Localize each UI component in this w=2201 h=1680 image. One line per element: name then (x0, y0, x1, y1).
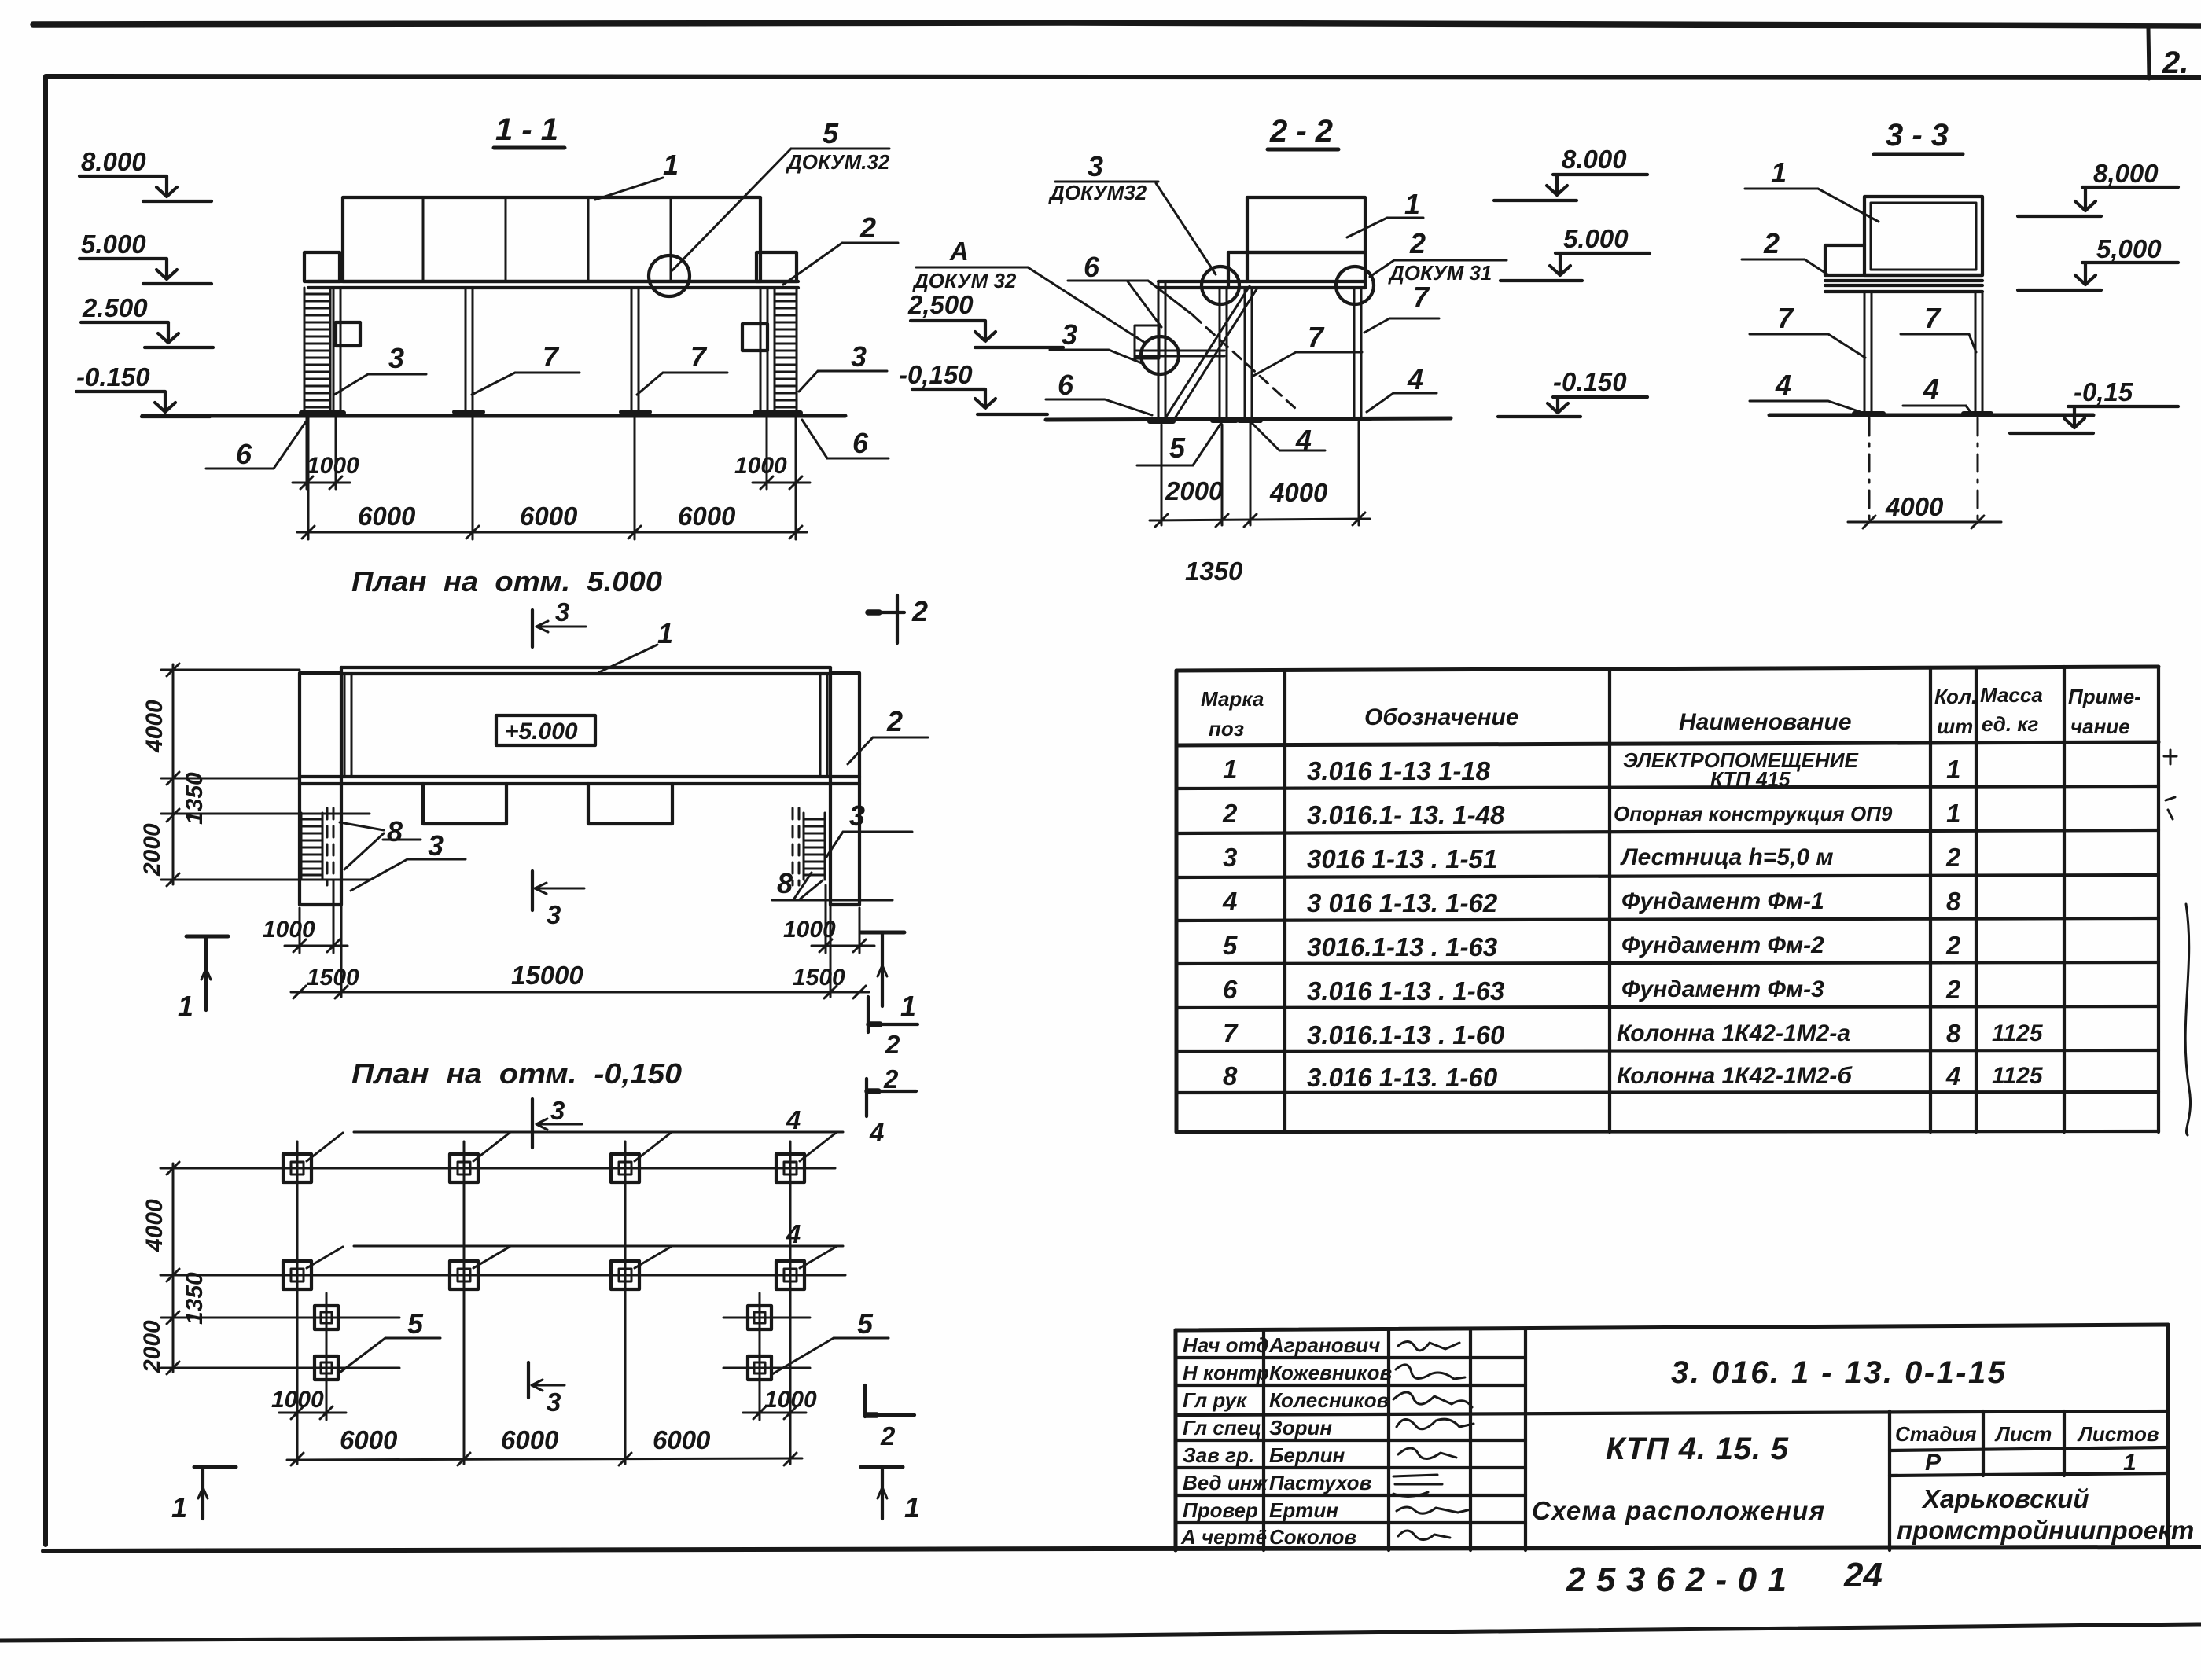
svg-text:2: 2 (886, 705, 903, 737)
section 3-3 title (1874, 118, 1963, 154)
table row 7: column 1K42-1M2-a (1223, 1019, 2044, 1050)
table row 4: foundation Fm-1 (1222, 887, 1961, 917)
right stair plan (793, 808, 825, 885)
svg-text:6: 6 (1058, 369, 1074, 401)
svg-text:-0.150: -0.150 (1553, 367, 1627, 396)
axis leader row 1 with label 4 (307, 1105, 843, 1161)
svg-text:4000: 4000 (142, 1199, 167, 1252)
svg-text:1350: 1350 (182, 1272, 208, 1325)
support frame left column (1158, 281, 1165, 421)
room outline plan (300, 667, 859, 784)
staff row 8: drafted (1180, 1525, 1450, 1549)
svg-text:5,000: 5,000 (2096, 234, 2162, 263)
svg-text:5: 5 (1223, 931, 1238, 960)
svg-text:Марка: Марка (1201, 687, 1264, 711)
label 7 left 3-3 (1750, 302, 1865, 358)
foundation plan title (351, 1057, 682, 1090)
dim 1000 right plan (783, 885, 874, 953)
svg-text:Соколов: Соколов (1269, 1525, 1356, 1549)
left bracket (336, 322, 360, 346)
svg-text:шт: шт (1937, 715, 1973, 738)
elevation mark 5.000 3-3 (2018, 234, 2178, 290)
foundation squares row 1 (283, 1154, 804, 1182)
svg-text:ДОКУМ 32: ДОКУМ 32 (912, 269, 1017, 292)
svg-text:6000: 6000 (653, 1425, 711, 1454)
svg-text:Кожевников: Кожевников (1269, 1361, 1392, 1384)
svg-text:ДОКУМ32: ДОКУМ32 (1048, 181, 1147, 204)
svg-text:Фундамент Фм-3: Фундамент Фм-3 (1621, 976, 1824, 1002)
svg-text:4000: 4000 (1269, 478, 1328, 507)
svg-text:Харьковский: Харьковский (1921, 1484, 2089, 1513)
beam notch left (423, 784, 506, 824)
label 6 frame upper (1068, 251, 1192, 327)
hidden stair flight dashed (1193, 315, 1296, 409)
leader 5 DOKUM.32 with detail circle (649, 117, 890, 296)
stair column pair (1220, 288, 1227, 421)
svg-text:2: 2 (885, 1030, 900, 1059)
svg-text:-0,15: -0,15 (2074, 377, 2133, 406)
svg-text:Колонна 1К42-1М2-а: Колонна 1К42-1М2-а (1617, 1020, 1850, 1046)
svg-text:8: 8 (1223, 1061, 1238, 1090)
table row 6: foundation Fm-3 (1223, 975, 1961, 1005)
dim line 2-2 (1150, 476, 1370, 586)
staff row 6: lead eng (1183, 1471, 1442, 1497)
svg-text:Наименование: Наименование (1679, 709, 1852, 735)
dim 1000 right foundation (743, 1387, 817, 1419)
svg-text:4: 4 (1407, 363, 1423, 395)
elevation mark 2.500 mid (907, 290, 1063, 347)
svg-text:Зав гр.: Зав гр. (1183, 1443, 1254, 1467)
svg-text:Зорин: Зорин (1269, 1416, 1332, 1439)
label 3 stair lower (1050, 318, 1142, 363)
electro room box 3-3 (1864, 197, 1982, 275)
svg-text:Обозначение: Обозначение (1364, 704, 1519, 730)
table row 2: support structure (1222, 799, 1960, 829)
svg-text:5: 5 (407, 1307, 424, 1340)
svg-text:Приме-: Приме- (2068, 685, 2141, 708)
svg-text:Вед инж: Вед инж (1183, 1471, 1268, 1494)
svg-text:3: 3 (1088, 150, 1103, 182)
svg-text:Масса: Масса (1980, 683, 2043, 707)
sheet top border line (33, 23, 2201, 26)
right wall strip plan (830, 667, 859, 905)
object name cell KTP 4.15.5 (1532, 1432, 1824, 1525)
label 3 DOKUM32 top (1048, 150, 1216, 274)
svg-text:3: 3 (849, 800, 865, 832)
leader 1 room plan (599, 617, 673, 672)
section mark 2 top right of plan (867, 595, 928, 643)
svg-text:ДОКУМ 31: ДОКУМ 31 (1388, 261, 1492, 285)
right bracket (742, 324, 767, 351)
dim 6000 chain 1-1 (297, 502, 807, 539)
axis leader row 2 with label 4 (307, 1219, 843, 1268)
elevation mark -0.150 left (76, 362, 210, 417)
left bracket 3-3 (1825, 245, 1864, 275)
svg-text:ед. кг: ед. кг (1982, 712, 2038, 736)
table header texts (1201, 683, 2141, 741)
svg-text:8,000: 8,000 (2093, 159, 2159, 188)
foundation squares row 2 (283, 1261, 804, 1289)
svg-text:2: 2 (1945, 843, 1961, 872)
svg-text:6: 6 (1223, 975, 1238, 1004)
svg-text:2,500: 2,500 (907, 290, 974, 319)
table row 1: electro room (1223, 748, 1960, 791)
ground line 1-1 (142, 414, 845, 418)
leader 1 (room) (595, 149, 679, 200)
svg-text:Колонна 1К42-1М2-б: Колонна 1К42-1М2-б (1617, 1063, 1853, 1089)
left ladder poz.3 (304, 288, 330, 415)
svg-text:3 - 3: 3 - 3 (1886, 118, 1949, 153)
label 1 3-3 (1745, 156, 1879, 222)
svg-text:поз: поз (1209, 717, 1244, 741)
svg-text:2000: 2000 (1165, 476, 1224, 505)
svg-text:Р: Р (1925, 1450, 1942, 1476)
svg-text:Лист: Лист (1994, 1422, 2052, 1446)
svg-text:2: 2 (911, 595, 928, 627)
section 1-1 title (494, 112, 565, 148)
right column 3-3 (1975, 292, 1982, 412)
svg-text:Ертин: Ертин (1269, 1498, 1338, 1522)
leader 5 left foundation (340, 1307, 440, 1373)
label 7 right 3-3 (1901, 302, 1976, 352)
svg-text:Н контр: Н контр (1183, 1361, 1269, 1384)
svg-text:3 016 1-13. 1-62: 3 016 1-13. 1-62 (1307, 888, 1498, 917)
svg-text:1: 1 (900, 990, 916, 1022)
svg-text:Фундамент Фм-1: Фундамент Фм-1 (1621, 888, 1824, 914)
left ladder column poz.8 (333, 288, 340, 412)
svg-text:3016.1-13 . 1-63: 3016.1-13 . 1-63 (1307, 932, 1497, 961)
svg-text:1: 1 (1946, 755, 1960, 784)
detail circle at landing (1141, 336, 1179, 374)
svg-text:+5.000: +5.000 (505, 719, 578, 744)
elevation mark -0.150 mid (899, 360, 1047, 414)
svg-text:5: 5 (1169, 432, 1186, 464)
middle column 7 (first) (455, 288, 483, 412)
staff row 7: checked (1183, 1498, 1470, 1522)
label 4 right 3-3 (1903, 373, 1972, 414)
platform beams 3-3 (1825, 275, 1982, 292)
svg-text:3: 3 (547, 1388, 561, 1417)
svg-text:8.000: 8.000 (1562, 145, 1627, 174)
svg-text:1000: 1000 (734, 453, 787, 479)
svg-text:1: 1 (663, 149, 679, 181)
svg-text:8: 8 (1946, 1019, 1961, 1048)
svg-text:1: 1 (178, 990, 193, 1022)
svg-text:А: А (949, 237, 969, 266)
stair landing platform (1135, 325, 1224, 358)
svg-text:2.: 2. (2162, 46, 2188, 80)
left wall strip plan (300, 667, 341, 905)
svg-text:7: 7 (1413, 281, 1430, 313)
leader 3 right stair (826, 800, 912, 857)
svg-text:2000: 2000 (139, 823, 165, 877)
base plates 3-3 (1854, 411, 1991, 416)
dim 1000 left 1-1 (293, 453, 359, 489)
ground line 2-2 (1046, 418, 1451, 420)
support beam 1-1 (308, 281, 798, 288)
+5.000 level box (496, 715, 595, 745)
svg-text:1: 1 (1223, 755, 1237, 784)
svg-text:Схема расположения: Схема расположения (1532, 1496, 1824, 1525)
svg-text:3.016 1-13 1-18: 3.016 1-13 1-18 (1307, 756, 1491, 785)
section mark 3 bottom foundation (528, 1362, 565, 1417)
svg-text:1 - 1: 1 - 1 (495, 112, 558, 147)
beam notch right (588, 784, 672, 824)
grid axis line row 1 (160, 1167, 835, 1170)
svg-text:3: 3 (851, 340, 867, 373)
leader 5 right foundation (772, 1307, 889, 1374)
centerlines dashed 3-3 (1869, 418, 1978, 525)
title block frame (1176, 1325, 2168, 1550)
stair square centerlines (161, 1318, 810, 1368)
svg-text:8: 8 (1946, 887, 1961, 916)
staff row 4: chief spec (1183, 1416, 1474, 1439)
svg-text:3.016.1- 13. 1-48: 3.016.1- 13. 1-48 (1307, 800, 1505, 829)
elevation mark 5.000 right of 2-2 (1500, 224, 1650, 281)
svg-text:Берлин: Берлин (1269, 1443, 1345, 1467)
detail circle at beam left (1202, 267, 1239, 304)
section mark 3 top foundation (532, 1096, 582, 1148)
right column 2-2 (1354, 288, 1361, 420)
left stair plan (301, 808, 333, 885)
svg-text:3: 3 (547, 900, 561, 929)
svg-text:1500: 1500 (307, 965, 359, 991)
svg-text:3.016.1-13 . 1-60: 3.016.1-13 . 1-60 (1307, 1020, 1505, 1050)
svg-text:6000: 6000 (520, 502, 578, 531)
svg-text:6000: 6000 (358, 502, 416, 531)
label 6 frame base (1046, 369, 1152, 415)
svg-text:7: 7 (543, 340, 560, 373)
svg-text:2: 2 (1409, 227, 1426, 259)
electro room box 1-1 (343, 197, 760, 281)
document number cell (1671, 1355, 2006, 1390)
svg-text:1: 1 (2123, 1450, 2137, 1476)
column centerlines foundation (297, 1141, 790, 1464)
svg-text:ДОКУМ.32: ДОКУМ.32 (786, 150, 890, 174)
label 4 left 3-3 (1750, 369, 1861, 412)
elevation mark -0.150 right of 2-2 (1498, 367, 1647, 417)
svg-text:1: 1 (1404, 188, 1420, 220)
svg-text:4: 4 (1775, 369, 1791, 401)
svg-text:1: 1 (904, 1491, 920, 1524)
svg-text:Провер: Провер (1183, 1498, 1258, 1522)
svg-text:Агранович: Агранович (1268, 1333, 1380, 1357)
leader 6 left (206, 418, 308, 470)
leader 8 right stair (772, 867, 893, 900)
label 4 bottom foundation (1251, 422, 1325, 456)
svg-text:1125: 1125 (1992, 1063, 2044, 1089)
section mark 1 bottom left plan (178, 936, 228, 1022)
svg-text:Пастухов: Пастухов (1269, 1471, 1372, 1494)
svg-text:8: 8 (387, 815, 403, 847)
section mark 1 bottom right plan (861, 932, 916, 1022)
leader 3 left ladder (334, 342, 426, 395)
vertical dim chain foundation (139, 1162, 208, 1374)
svg-text:чание: чание (2070, 715, 2130, 738)
svg-text:6000: 6000 (501, 1425, 559, 1454)
svg-text:1350: 1350 (1185, 557, 1243, 586)
dim 1500/15000/1500 plan (291, 905, 869, 998)
svg-text:Кол.: Кол. (1934, 685, 1977, 708)
svg-text:15000: 15000 (511, 961, 583, 990)
svg-text:2: 2 (1945, 931, 1961, 960)
table row 8: column 1K42-1M2-b (1223, 1061, 2044, 1092)
svg-text:3: 3 (428, 829, 444, 862)
staff row 2: norm control (1183, 1361, 1465, 1384)
svg-text:1000: 1000 (764, 1387, 817, 1413)
svg-text:А чертё: А чертё (1180, 1525, 1267, 1549)
svg-text:4000: 4000 (1885, 492, 1944, 521)
stair foundation squares right (748, 1306, 771, 1380)
extension lines 2-2 (1161, 422, 1359, 525)
stair foundation squares left (315, 1306, 338, 1380)
svg-text:Лестница h=5,0 м: Лестница h=5,0 м (1620, 844, 1834, 870)
svg-text:1: 1 (1946, 799, 1960, 828)
left ladder cap (304, 252, 340, 281)
grid axis line row 2 (160, 1274, 845, 1277)
label 1 room 2-2 (1347, 188, 1423, 237)
svg-text:6: 6 (236, 438, 252, 470)
svg-text:2000: 2000 (139, 1320, 165, 1373)
staff row 3: chief eng (1183, 1388, 1472, 1412)
svg-text:3.016 1-13 . 1-63: 3.016 1-13 . 1-63 (1307, 976, 1504, 1005)
svg-text:3: 3 (550, 1096, 565, 1125)
table row 3: ladder (1223, 843, 1961, 873)
svg-text:3: 3 (1223, 843, 1237, 872)
svg-text:3. 016. 1 - 13. 0-1-15: 3. 016. 1 - 13. 0-1-15 (1671, 1355, 2006, 1390)
middle column 7 (second) (621, 288, 650, 412)
svg-text:2: 2 (859, 211, 876, 244)
svg-text:8.000: 8.000 (81, 147, 146, 176)
svg-text:1: 1 (171, 1491, 187, 1524)
label 7 left 2-2 (1253, 321, 1362, 376)
label 5 mid foundation (1137, 423, 1221, 465)
svg-text:2: 2 (1222, 799, 1238, 828)
ladder base plates (301, 410, 801, 415)
svg-text:1000: 1000 (271, 1387, 324, 1413)
svg-text:4: 4 (1945, 1061, 1960, 1090)
base plates 2-2 (1150, 419, 1370, 421)
svg-text:1000: 1000 (307, 453, 359, 479)
elevation mark 8.000 right of 2-2 (1494, 145, 1647, 200)
staff row 1: dept head (1183, 1333, 1459, 1357)
leader 3 left stair (351, 829, 466, 891)
svg-text:4: 4 (1222, 887, 1237, 916)
right ladder cap (756, 252, 797, 281)
extension lines 1-1 (307, 415, 796, 539)
svg-text:2.500: 2.500 (82, 293, 148, 322)
svg-text:2 - 2: 2 - 2 (1269, 114, 1333, 149)
left column 3-3 (1864, 292, 1872, 412)
section mark 1 bottom left foundation (171, 1467, 236, 1524)
elevation mark 5.000 left (79, 230, 212, 284)
svg-text:7: 7 (1223, 1019, 1239, 1048)
label 2 3-3 (1742, 227, 1827, 274)
svg-text:-0.150: -0.150 (76, 362, 150, 392)
svg-text:6: 6 (852, 427, 869, 459)
title block staff grid (1176, 1330, 1526, 1550)
svg-text:5: 5 (857, 1307, 874, 1340)
sheet number divider (2148, 28, 2149, 79)
svg-text:5.000: 5.000 (1563, 224, 1629, 253)
elevation mark 8.000 3-3 (2018, 159, 2178, 216)
svg-text:4: 4 (786, 1105, 801, 1134)
svg-text:промстройниипроект: промстройниипроект (1897, 1516, 2194, 1545)
svg-text:7: 7 (1924, 302, 1942, 334)
svg-text:6000: 6000 (340, 1425, 398, 1454)
dim 1000 right 1-1 (734, 453, 810, 489)
svg-text:8: 8 (777, 867, 793, 899)
vertical dim chain plan (139, 664, 208, 886)
svg-text:7: 7 (1308, 321, 1325, 353)
elevation mark 8.000 left (79, 147, 212, 201)
svg-text:1000: 1000 (263, 917, 315, 943)
svg-text:4: 4 (1923, 373, 1939, 405)
svg-text:Гл рук: Гл рук (1183, 1388, 1248, 1412)
label 7 right 2-2 (1364, 281, 1439, 333)
svg-text:5.000: 5.000 (81, 230, 146, 259)
leader 3 right ladder (799, 340, 887, 392)
dim 1000 left plan (263, 885, 348, 953)
svg-text:КТП 4. 15. 5: КТП 4. 15. 5 (1606, 1432, 1789, 1466)
beam 2-2 (1158, 281, 1365, 288)
svg-text:Опорная конструкция ОП9: Опорная конструкция ОП9 (1614, 802, 1893, 825)
sheet number 2 (2162, 46, 2188, 80)
detail circle at beam right (1336, 267, 1374, 304)
svg-text:1000: 1000 (783, 917, 836, 943)
plan 5.000 title (351, 565, 662, 597)
svg-text:3: 3 (555, 597, 569, 627)
svg-text:4000: 4000 (142, 700, 167, 753)
svg-text:Стадия: Стадия (1895, 1422, 1977, 1446)
stage/sheet header cells (1890, 1411, 2168, 1550)
svg-text:3: 3 (388, 342, 404, 374)
leader 8 left stair (340, 815, 421, 869)
staff row 5: group lead (1183, 1443, 1456, 1467)
section 2-2 title (1268, 114, 1338, 149)
svg-text:24: 24 (1843, 1556, 1883, 1594)
svg-text:5: 5 (823, 117, 839, 149)
svg-text:Фундамент Фм-2: Фундамент Фм-2 (1621, 932, 1824, 958)
right ladder poz.3 (775, 288, 797, 415)
table row 5: foundation Fm-2 (1223, 931, 1961, 961)
section mark 2 bottom foundation (865, 1385, 915, 1450)
svg-text:2: 2 (880, 1421, 896, 1450)
section mark 1 bottom right foundation (861, 1467, 920, 1524)
column under box edge (1245, 288, 1252, 421)
label 2 DOKUM 31 (1370, 227, 1507, 285)
svg-text:3: 3 (1062, 318, 1077, 351)
institute name cell (1897, 1484, 2194, 1545)
svg-text:3.016 1-13. 1-60: 3.016 1-13. 1-60 (1307, 1063, 1498, 1092)
svg-text:-0,150: -0,150 (899, 360, 973, 389)
section mark 3 top of plan (532, 597, 586, 647)
label 4 right base (1367, 363, 1437, 412)
parts table grid (1176, 667, 2159, 1132)
svg-text:1: 1 (657, 617, 673, 649)
ground line 3-3 (1769, 414, 2093, 417)
svg-text:4: 4 (869, 1118, 884, 1147)
svg-text:3016 1-13 . 1-51: 3016 1-13 . 1-51 (1307, 844, 1497, 873)
svg-text:7: 7 (690, 340, 708, 373)
electro room box 2-2 (1228, 197, 1365, 288)
section mark 2 top foundation (867, 1064, 916, 1147)
svg-text:1350: 1350 (182, 772, 208, 825)
stair stringer diagonal (1166, 286, 1257, 418)
sheet bottom edge line (0, 1624, 2201, 1641)
svg-text:2: 2 (1763, 227, 1780, 259)
svg-text:6000: 6000 (678, 502, 736, 531)
